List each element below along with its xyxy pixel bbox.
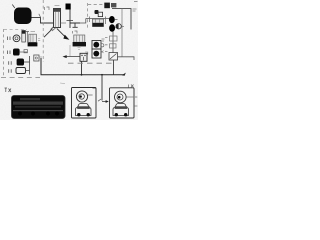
arrow end xyxy=(122,73,126,76)
label 46 xyxy=(93,88,96,90)
arrow to right box xyxy=(102,101,107,103)
arrow to left box xyxy=(98,99,101,101)
label 74 xyxy=(45,7,50,10)
junction xyxy=(81,74,83,76)
wire xyxy=(69,45,71,56)
label 20 xyxy=(9,61,12,65)
car icon FL xyxy=(76,104,92,116)
dashed line xyxy=(68,62,112,64)
wire xyxy=(70,23,80,27)
check valve arrow xyxy=(66,56,80,58)
dashed line xyxy=(1,77,40,79)
label 4x xyxy=(129,85,134,88)
solenoid valve 26 xyxy=(95,10,99,14)
label 56 xyxy=(60,82,65,85)
wheel speed sensor FL xyxy=(76,91,87,102)
valve 22 xyxy=(16,68,26,74)
wire xyxy=(81,61,83,75)
wire xyxy=(20,51,27,53)
wheel speed sensor FR xyxy=(115,91,127,103)
valve 34 xyxy=(110,36,118,41)
solenoid A xyxy=(109,16,115,23)
label 28 xyxy=(104,3,116,9)
dashed line xyxy=(42,0,44,62)
wire xyxy=(69,10,71,29)
label ticks xyxy=(126,96,137,98)
dashed enclosure xyxy=(87,3,89,30)
vehicle photo box xyxy=(12,96,66,119)
valve 18 xyxy=(13,49,20,56)
junction xyxy=(101,74,103,76)
wire xyxy=(26,56,30,75)
wire xyxy=(90,17,106,25)
valve 36 xyxy=(110,44,117,48)
filter cartridge xyxy=(22,31,26,43)
wire xyxy=(61,22,67,24)
leader lines 54 xyxy=(44,29,53,38)
wire xyxy=(32,18,54,23)
labels xyxy=(105,38,108,52)
component chain xyxy=(112,32,114,53)
compressor 16 xyxy=(13,35,20,42)
valve block 76 xyxy=(66,4,71,10)
label 50 xyxy=(73,31,78,34)
valve 38 xyxy=(109,53,118,61)
compressor 50 xyxy=(73,35,86,50)
manifold 30 xyxy=(93,19,104,27)
wire xyxy=(121,9,123,57)
left enclosure dash-dot xyxy=(3,29,5,76)
wire xyxy=(118,57,135,60)
solenoid B xyxy=(109,24,115,32)
wire xyxy=(12,5,15,9)
car icon FR xyxy=(113,104,129,116)
axle box FR xyxy=(110,85,138,119)
main bus wire xyxy=(41,58,124,75)
label 7x xyxy=(5,88,12,92)
leader arrow 56 xyxy=(57,28,66,37)
valve box xyxy=(98,12,102,16)
valve 20 xyxy=(17,59,24,66)
pump motor unit xyxy=(28,32,38,47)
label 22 xyxy=(9,69,12,73)
wire xyxy=(113,60,115,75)
gauge box 32 xyxy=(92,41,101,50)
pressure box P xyxy=(80,52,88,61)
pilot circle xyxy=(101,44,104,47)
wire xyxy=(25,32,29,43)
gauge circle xyxy=(116,24,121,29)
wire xyxy=(80,19,110,24)
wire xyxy=(24,61,30,63)
gauge box 33 xyxy=(92,49,101,58)
axle box FL xyxy=(72,88,97,119)
wire rail xyxy=(112,9,131,30)
pilot box 58 xyxy=(34,55,42,61)
label 24 xyxy=(133,9,137,11)
wire xyxy=(115,20,124,28)
label 18 xyxy=(8,51,11,55)
label leader 40 xyxy=(39,14,41,17)
label 42 xyxy=(38,39,40,41)
reservoir tank 70 xyxy=(14,8,32,25)
label 31 xyxy=(102,39,105,41)
label 16 xyxy=(8,37,11,41)
wire xyxy=(101,75,103,101)
wire xyxy=(67,20,74,22)
air dryer 12 xyxy=(54,6,61,28)
